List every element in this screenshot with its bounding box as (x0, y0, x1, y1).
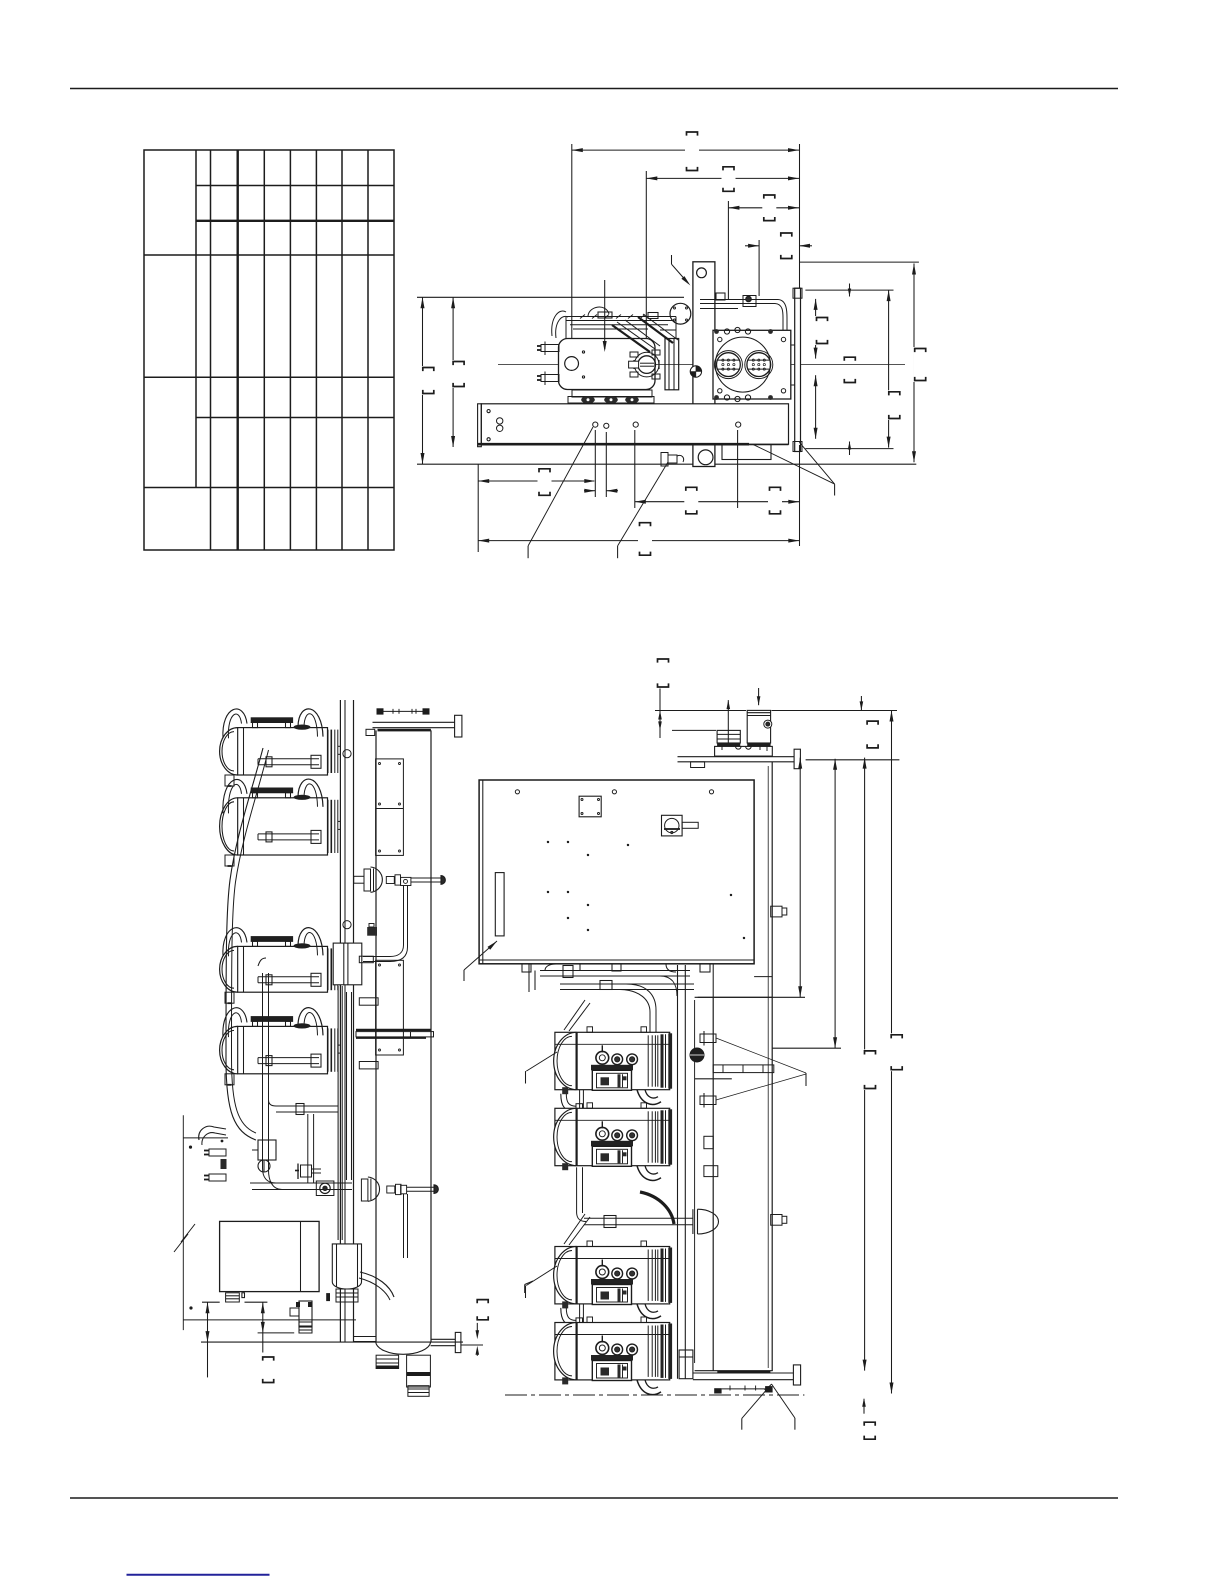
right drawing: suction flange bell (692, 1209, 694, 1234)
plan compressor suction bend (298, 709, 323, 737)
top view unit: base frame (481, 404, 788, 444)
right drawing: dome feed pipes (564, 1000, 585, 1030)
side compressor J-pipe below dome (561, 1094, 576, 1112)
right drawing: vertical dim x=835.1 (834, 759, 836, 1048)
plan compressor mid pipe (258, 833, 319, 835)
top view: leader lines lower-left (528, 427, 593, 546)
left drawing: tee pipe dim arrows (476, 1323, 478, 1334)
left drawing: top bar and lifting tee (373, 721, 455, 723)
left drawing: separator cylinder (332, 1244, 361, 1289)
top view: extension line x=571.8 (571, 144, 573, 357)
left drawing: shell top dark band (378, 729, 431, 732)
left drawing: expansion valve (258, 1140, 276, 1160)
plan compressor top rail (dark) (251, 717, 293, 722)
side compressor terminal box (592, 1285, 631, 1305)
top view unit: support column (693, 262, 715, 467)
top view unit: small ports above/below gauges (724, 329, 729, 334)
side compressor discharge elbow (637, 1380, 661, 1395)
top view unit: compressor sight glass circle (565, 357, 579, 371)
left drawing: lower relief drop pipe (403, 1194, 405, 1258)
right drawing: piping under panel (540, 970, 690, 972)
side compressor terminal circles (596, 1051, 609, 1064)
plan compressor dome (220, 728, 238, 775)
top view: right dim line x=888.6 (888, 290, 890, 448)
side compressor terminal plate (591, 1141, 633, 1147)
plan compressor suction bend (298, 928, 323, 956)
side compressor stub below dome (562, 1377, 568, 1384)
right drawing: shell sensors (704, 1136, 713, 1148)
left drawing: leader mark top-right of tee (524, 1285, 526, 1294)
right drawing: vertical dim x=891.5 (891, 711, 893, 1394)
left drawing: upper relief drop pipe (363, 886, 404, 957)
top view: small dim y=245.8 with outside arrows (745, 245, 759, 247)
top view: dim line y=501.7 (635, 501, 800, 503)
top view unit: mounting feet (572, 390, 652, 397)
side compressor stub below dome (562, 1163, 568, 1170)
left drawing: lower horizontal pipe with valve (250, 1182, 352, 1184)
right drawing: vertical dim x=800.2 (799, 758, 801, 998)
left drawing: liquid header lines (356, 1029, 431, 1031)
top view unit: compressor bore circle (behind) (715, 337, 770, 392)
left drawing: lower relief valve train (387, 1186, 395, 1193)
plan compressor stub below dome (225, 775, 234, 786)
left drawing: rail holes (343, 750, 351, 758)
footer hyperlink underline (127, 1574, 270, 1576)
right drawing: panel square cutout (579, 796, 601, 817)
right drawing: panel leader (464, 941, 497, 970)
top view unit: leader arrow onto pipes (604, 280, 606, 349)
top view: extension line x=759.1 (758, 240, 760, 296)
right drawing: right-side nozzles (771, 906, 782, 917)
right drawing: shell edges (712, 997, 714, 1371)
side compressor discharge elbow (637, 1166, 661, 1181)
right drawing: inter-compressor piping (576, 1167, 578, 1213)
right drawing: isolator feet (714, 1388, 721, 1393)
left drawing: break mark (174, 1224, 195, 1252)
side compressor terminal plate (591, 1279, 633, 1285)
left drawing: upper relief bell flange (354, 876, 364, 883)
right drawing: compressor leaders (526, 1052, 557, 1071)
left drawing: frame rail verticals (339, 700, 341, 1342)
left drawing: shell outline (375, 730, 377, 1342)
top view unit: right tube sheet plate (795, 288, 801, 451)
plan compressor right flanges (327, 800, 329, 853)
side compressor stub below dome (562, 1087, 568, 1094)
dimension data table grid (144, 150, 394, 550)
top view: small dim y=490.7 (584, 490, 595, 492)
left drawing: economizer box (333, 943, 362, 985)
side compressor terminal circles (596, 1127, 609, 1140)
side compressor drop pipe (579, 1090, 581, 1111)
left drawing: bottom dims (202, 1301, 220, 1303)
right drawing: pump 2 (747, 710, 770, 743)
right drawing: bottom small dim (863, 1399, 865, 1414)
left drawing: condenser panel lower (376, 960, 404, 1055)
top view unit: hatch ticks on manifold (580, 315, 585, 319)
right drawing: tube support plate (713, 1065, 774, 1073)
right drawing: pump mounting plate (715, 746, 773, 756)
plan compressor top rail (dark) (251, 788, 293, 793)
top view unit: gauge plate (713, 330, 791, 399)
top view: right dim line x=815.6 lower (815, 375, 817, 439)
top view: dim line y=481 (478, 480, 594, 482)
side compressor top tabs (587, 1317, 593, 1323)
top view: dim line y=178.4 (646, 177, 799, 179)
right drawing: dim extension lines (772, 710, 898, 712)
left drawing: drop pipe into valve cluster (307, 1114, 309, 1183)
top view: leader lines lower-right (753, 444, 835, 484)
plan compressor hook pipe (223, 780, 247, 814)
right drawing: top dim ticks (727, 700, 729, 743)
left drawing: small valve on shell edge (367, 927, 377, 936)
left drawing: long suction pipe down-left (226, 748, 263, 1140)
right drawing: top rail bar and tee (678, 756, 795, 758)
side compressor discharge elbow (637, 1090, 661, 1105)
side compressor top tabs (587, 1027, 593, 1033)
left drawing: box feet (226, 1293, 240, 1302)
left drawing: bottom valve assembly (299, 1301, 312, 1327)
left drawing: bottom lifting tee (431, 1338, 456, 1340)
plan compressor body (238, 728, 328, 775)
right drawing: frame bottom cap (679, 1350, 693, 1379)
plan compressor stub below dome (225, 855, 234, 866)
right drawing: shell bottom (695, 1370, 773, 1372)
top view unit: gauge circles (717, 353, 741, 377)
side compressor top tabs (587, 1103, 593, 1109)
side compressor terminal box (592, 1070, 631, 1090)
plan compressor right flanges (327, 948, 329, 990)
right drawing: ground centerline (505, 1394, 804, 1396)
top view: extension line x=646.3 (645, 171, 647, 356)
side compressor drop pipe (579, 1304, 581, 1325)
left drawing: shell bottom head (376, 1342, 431, 1354)
side compressor right flanges (647, 1326, 649, 1377)
right drawing: stub leaders to right (716, 1038, 806, 1073)
page top rule (70, 88, 1118, 90)
right drawing: control panel (479, 780, 754, 964)
page bottom rule (70, 1497, 1118, 1499)
left drawing: base line (201, 1341, 463, 1343)
top view: left dim line x=422.5 (422, 297, 424, 464)
top view: right ext y=290.1 with tick (805, 289, 893, 291)
top view: right dim line x=815.6 upper (815, 299, 817, 359)
plan compressor right flanges (327, 1028, 329, 1071)
right drawing: vertical dim x=864.6 (864, 758, 866, 1371)
left drawing: electrical box (220, 1221, 320, 1291)
plan compressor mid pipe (258, 758, 319, 760)
top view unit: top piping (566, 316, 676, 318)
left drawing: vertical pipes right of rail (337, 986, 339, 1240)
side compressor terminal box (592, 1146, 631, 1166)
plan compressor body (238, 798, 328, 855)
left drawing: frame end cap (366, 729, 375, 735)
plan compressor dome (220, 798, 238, 855)
left drawing: pipe separator to shell (360, 1272, 394, 1297)
side compressor body (555, 1108, 670, 1165)
top view: bottom dims (477, 464, 479, 552)
side compressor right flanges (647, 1111, 649, 1162)
right drawing: panel bottom stubs (522, 964, 531, 972)
side compressor top tabs (587, 1241, 593, 1247)
plan compressor stub below dome (225, 992, 234, 1003)
side compressor terminal box (592, 1361, 631, 1381)
side compressor right flanges (647, 1035, 649, 1086)
top view: left extension line y=297.3 (417, 296, 684, 298)
top view unit: upper manifold details (573, 328, 648, 330)
left drawing: bottom nozzles (376, 1355, 399, 1368)
side compressor stub below dome (562, 1301, 568, 1308)
side compressor terminal circles (596, 1342, 609, 1355)
left drawing: second drop pipe (263, 973, 277, 1183)
left drawing: phantom dots (189, 1146, 191, 1148)
right drawing: panel stray dots (547, 841, 549, 843)
top view unit: left bolt stubs (541, 345, 559, 352)
plan compressor mid pipe (258, 1057, 319, 1059)
left drawing: phantom clearance boundary (182, 1115, 184, 1330)
top view unit: compressor body (559, 339, 656, 390)
top view: right extension line y=262.1 (800, 261, 919, 263)
left drawing: upper relief valve train (386, 877, 394, 884)
plan compressor body (238, 946, 328, 992)
side compressor J-pipe below dome (561, 1308, 576, 1326)
left drawing: pipe rail to shell bottom (354, 1336, 376, 1338)
plan compressor dome (220, 1026, 238, 1073)
right drawing: dark port circle (690, 1048, 704, 1062)
plan compressor suction bend (298, 779, 323, 807)
side compressor dome (554, 1108, 577, 1165)
top view unit: drain fitting below base (661, 453, 668, 467)
left drawing: charging valve with handle (301, 1165, 312, 1177)
right drawing: pump height dim (655, 710, 746, 712)
top view unit: leader to column (671, 255, 673, 264)
side compressor terminal plate (591, 1065, 633, 1071)
side compressor dome (554, 1247, 577, 1304)
left drawing: lower relief bell flange (361, 1179, 368, 1201)
top view unit: base holes and screws (497, 418, 503, 424)
side compressor terminal plate (591, 1355, 633, 1361)
side compressor dome (554, 1032, 577, 1089)
left drawing: hex valve on lower pipe (316, 1181, 334, 1196)
left drawing: condenser panel upper (376, 759, 404, 856)
top view: bracket pair mid-right (843, 356, 857, 384)
top view: dim line y=540.6 (478, 540, 799, 542)
top view unit: diagonal discharge pipes (612, 325, 650, 352)
plan compressor body (238, 1026, 328, 1073)
top view unit: flanged suction valve (638, 356, 656, 374)
side compressor body (555, 1032, 670, 1089)
plan compressor stub below dome (225, 1074, 234, 1085)
left drawing: left service fittings (199, 1126, 226, 1140)
plan compressor top rail (dark) (251, 936, 293, 941)
plan compressor hook pipe (223, 1008, 247, 1037)
right drawing: small top dim (860, 696, 862, 710)
top view unit: top-right piping (700, 299, 778, 301)
top view: dim line y=207.8 (728, 207, 799, 209)
plan compressor dome (220, 946, 238, 992)
right drawing: horizontal lines under panel (695, 996, 773, 998)
right drawing: relief stubs on shell (700, 1034, 716, 1043)
top view unit: centroid symbol half-filled circle (690, 366, 701, 377)
right drawing: bottom tee (693, 1372, 794, 1374)
side compressor dome (554, 1323, 577, 1380)
top view unit: adapter block (665, 339, 679, 390)
left drawing: mid horizontal pipe to economizer (276, 1105, 338, 1107)
plan compressor suction bend (298, 1008, 323, 1036)
top view: floor line y=464.2 (417, 463, 916, 465)
top view: dim line y=150 (572, 149, 799, 151)
side compressor body (555, 1323, 670, 1380)
plan compressor hook pipe (223, 928, 247, 957)
plan compressor top rail (dark) (251, 1016, 293, 1021)
right drawing: pump 1 (717, 730, 740, 743)
plan compressor hook pipe (223, 709, 247, 738)
top view: left dim line x=453.1 (452, 297, 454, 447)
right drawing: isolator leader V (742, 1384, 772, 1418)
right drawing: panel screws (515, 790, 519, 794)
top view: right ext y=448.6 with tick (805, 448, 893, 450)
top view unit: elbow circle (670, 303, 691, 324)
left drawing: shell side fittings (359, 998, 378, 1005)
left drawing: top isolator strip (377, 708, 384, 714)
plan compressor right flanges (327, 730, 329, 773)
top view unit: centerline (498, 364, 905, 366)
right drawing: panel slot (495, 873, 504, 936)
top view: extension line x=728.4 (727, 201, 729, 299)
side compressor body (555, 1247, 670, 1304)
plan compressor mid pipe (258, 976, 319, 978)
side compressor right flanges (647, 1250, 649, 1301)
side compressor discharge elbow (637, 1304, 661, 1319)
right drawing: frame rail verticals (677, 965, 679, 1379)
top view: extension line x=799.5 (799, 144, 801, 288)
top view: right dim line x=914 (913, 264, 915, 463)
side compressor terminal circles (596, 1266, 609, 1279)
right drawing: disconnect switch (662, 815, 683, 836)
